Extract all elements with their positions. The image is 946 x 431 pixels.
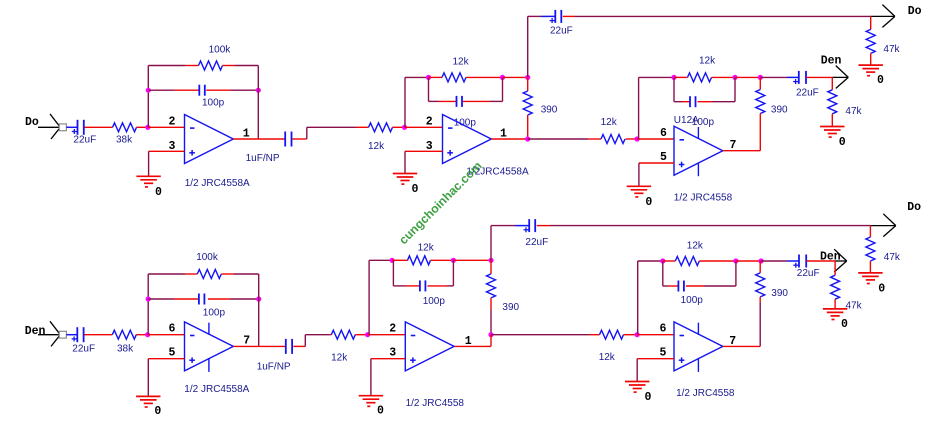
wire Do out black [871,15,895,17]
op-amp U4 1/2 JRC4558 (bottom stage2) [405,322,454,371]
wire 390 bottom lead (bot st3) [759,297,761,302]
wire 390 to node G (bot st2) [490,310,492,335]
wire C5 right lead [563,15,575,17]
wire 390 top lead (top st2) [527,77,529,91]
wire node B to U2 pin2 [405,126,443,128]
op-amp U2 1/2JRC4558A (top stage2) [443,115,492,164]
wire C8 left lead (blue) [66,334,77,336]
wire C10 right lead [293,345,305,347]
wire C6 left lead (dark) [674,101,682,103]
junction st3 row mid (bot) [733,258,738,263]
capacitor C10 1uF/NP (bottom coupling) [257,339,292,373]
wire st3 feedback left rail (top) [639,77,674,139]
wire node F to U4 pin2 [368,334,406,336]
wire 47k top lead (Do bot) [869,226,871,237]
wire U2 output [491,138,527,140]
wire pin3 down to ground (top st2) [404,151,406,173]
resistor R17 12k (bottom stage3 input) [599,330,624,363]
svg-text:0: 0 [877,74,884,87]
svg-text:390: 390 [502,302,519,313]
wire 47k bottom lead (Do bot) [869,261,871,273]
wire U4 output [454,335,491,347]
svg-text:22uF: 22uF [73,135,96,146]
ground (top Den load) [820,127,846,150]
op-amp U5 1/2 JRC4558 (bottom stage3) [674,322,723,372]
wire C11 right lead (dark) [447,285,453,287]
svg-text:1/2 JRC4558: 1/2 JRC4558 [674,193,733,204]
junction st2 row left (top) [426,75,431,80]
resistor R18 12k (bottom st3 feedback) [675,241,704,266]
wire 390 bottom lead (top st2) [527,115,529,139]
wire 100k left lead [185,65,199,67]
wire U12A pin5 (red) [639,162,674,164]
svg-text:100p: 100p [203,307,226,318]
wire R8 right lead [712,76,736,78]
svg-text:12k: 12k [453,57,470,68]
wire node E to U3 pin6 [148,334,185,336]
wire input Do (black) [38,126,59,128]
wire bus st2 to st3 (bot) [491,334,590,336]
wire 390 bottom lead (bot st2) [490,298,492,310]
wire 47k bottom lead (Do top) [870,53,872,65]
wire 100k row left (top) [148,65,185,67]
junction st3 row mid (top) [732,75,737,80]
svg-text:12k: 12k [331,353,348,364]
wire U5 output [723,345,760,347]
wire 100k left lead (bot) [185,273,197,275]
ground (bottom Do load) [858,273,885,295]
node D junction (top st3 pin6) [635,136,640,141]
wire R18 left lead [663,260,676,262]
ground (top Do load) [859,65,885,87]
wire R13 to node F [355,334,367,336]
svg-text:1/2 JRC4558: 1/2 JRC4558 [676,388,735,399]
op-amp U3 1/2 JRC4558A (bottom stage1) [185,322,234,372]
wire st2 feedback left rail (bot) [369,260,392,334]
wire 47k top lead (Den bot) [834,261,836,275]
wire 100p right lead [206,89,230,91]
wire R3 to node B [393,126,405,128]
resistor R20 47k (bottom Den load) [831,275,863,312]
junction right rail / cap row (top st1) [256,88,261,93]
svg-text:38k: 38k [116,135,133,146]
wire R17 left lead [590,334,600,336]
svg-text:1/2 JRC4558A: 1/2 JRC4558A [185,178,250,189]
wire 100p right lead (bot) [208,298,230,300]
svg-text:6: 6 [660,323,667,336]
wire U3 pin5 (red) [148,358,184,360]
svg-text:Do: Do [25,116,39,129]
capacitor C11 100p (bottom st2 feedback) [420,280,445,307]
wire 100p row right (bot) [230,298,259,300]
wire st2 cap loop (bot) [393,260,453,286]
wire Den out black (bot) [835,260,847,262]
svg-text:2: 2 [389,323,396,336]
resistor R9 390 (top st3) [756,90,788,116]
node C junction U2 out / 390 [525,136,530,141]
svg-text:2: 2 [169,115,176,128]
svg-text:22uF: 22uF [72,344,95,355]
svg-text:22uF: 22uF [525,237,548,248]
wire C13 right lead [686,285,704,287]
wire 100k row left (bot) [148,273,185,275]
wire U1 pin3 (red) [149,150,185,152]
resistor R8 12k (top st3 feedback) [688,55,717,82]
svg-text:0: 0 [155,186,162,199]
wire R7 left lead [588,138,601,140]
node H junction (bot st3 pin6) [635,332,640,337]
resistor R5 390 (top st2) [523,91,558,116]
junction st3 row right (bot) [758,258,763,263]
capacitor C3 1uF/NP (top coupling) [246,132,292,164]
wire bus st2 to st3 (top) [528,138,588,140]
wire R14 right lead [431,259,454,261]
svg-text:22uF: 22uF [550,26,573,37]
wire pin5 down to ground (bot st1) [147,359,149,397]
resistor R14 12k (bottom st2 feedback) [408,242,435,264]
wire C8 to R11 [84,334,112,336]
capacitor C7 22uF (top Den out) [793,71,819,99]
resistor R2 100k (top feedback) [199,44,232,70]
svg-text:5: 5 [660,347,667,360]
ground (top st2) [393,174,419,197]
wire R14 left lead [392,259,407,261]
wire 100p row left (top) [148,89,174,91]
wire top rail left segment [528,15,541,17]
svg-text:22uF: 22uF [797,268,820,279]
resistor R11 38k (bottom) [112,330,136,354]
wire coupling step up (top) [307,127,356,139]
wire C12 right lead [537,225,550,227]
resistor R1 38k (top) [113,123,137,146]
wire 100k right lead (bot) [221,273,234,275]
wire R4 right lead [466,76,503,78]
wire st3 feedback left rail (bot) [638,261,663,335]
svg-text:0: 0 [645,196,652,209]
wire 47k top lead (Do top) [870,16,872,29]
wire 390 bottom lead (top st3) [759,114,761,151]
svg-text:1/2 JRC4558A: 1/2 JRC4558A [184,384,249,395]
wire C6 left lead [682,101,690,103]
svg-text:390: 390 [541,105,558,116]
wire st3 row right (bot) [736,260,761,262]
svg-text:0: 0 [878,282,885,295]
capacitor C12 22uF (bottom rail) [524,219,549,248]
wire 100p left lead [175,89,200,91]
capacitor C9 100p (bottom feedback) [199,294,226,319]
junction st3 row left (bot) [660,258,665,263]
svg-text:0: 0 [841,318,848,331]
svg-text:100p: 100p [454,117,477,128]
svg-text:47k: 47k [884,252,901,263]
connector Do input port [50,114,66,139]
wire C4 left lead [439,100,457,102]
wire st2 cap loop (top) [429,77,503,101]
wire pin3 down to ground (bot st2) [370,359,372,396]
svg-text:47k: 47k [845,106,862,117]
junction st2 rail top (bot) [488,258,493,263]
svg-text:12k: 12k [601,117,618,128]
connector Do output port (bottom) [883,201,921,237]
wire to R13 12k [330,334,332,336]
wire C4 right lead (dark) [490,100,503,102]
wire 390 top lead (bot st2) [490,260,492,274]
svg-text:Den: Den [821,55,842,68]
connector Do output port (top) [882,5,921,28]
wire Do out black (bot) [870,225,895,227]
resistor R12 100k (bottom feedback) [196,252,221,278]
svg-text:0: 0 [839,136,846,149]
wire coupling step up (bot) [305,335,329,347]
ground (bot st2) [359,396,384,418]
wire R1 to node A [137,126,148,128]
svg-text:Den: Den [25,325,46,338]
wire input Den (black) [38,334,59,336]
svg-text:12k: 12k [599,352,616,363]
op-amp U1 1/2 JRC4558A (top stage1) [185,115,234,164]
wire feedback right rail (top st1) [257,66,259,140]
wire R18 right lead [699,260,736,262]
junction st2 row right (bot) [451,258,456,263]
svg-text:12k: 12k [687,241,704,252]
resistor R19 390 (bot st3) [756,273,789,299]
resistor R10 47k (top Den load) [828,90,863,117]
wire C1 left lead (blue) [66,126,77,128]
wire U3 output [233,345,285,347]
ground (bot st1) [136,396,161,418]
svg-text:Do: Do [907,201,921,214]
svg-text:100k: 100k [196,252,219,263]
wire bottom rail left segment [491,225,515,227]
wire C4 left lead (dark) [429,100,439,102]
wire C7 blue lead [787,76,799,78]
wire C5 blue lead [541,15,555,17]
junction st2 rail top (top) [525,75,530,80]
wire C12 blue lead [515,225,529,227]
svg-text:390: 390 [771,105,788,116]
wire node A to U1 pin2 [148,126,185,128]
connector Den output port (bottom) [820,249,847,272]
wire node H to U5 pin6 [637,334,674,336]
node A junction (top pin2 tap) [145,125,150,130]
wire U4 pin3 (red) [371,358,405,360]
wire bottom rail to Do out [550,225,870,227]
wire R17 to node H [624,334,638,336]
svg-text:47k: 47k [883,44,900,55]
resistor R4 12k (top st2 feedback) [442,57,470,82]
ground (top st3) [627,186,653,209]
wire feedback left rail (bot st1) [147,274,149,335]
wire C13 right lead (dark) [704,285,736,287]
wire 47k bottom lead (Den top) [831,114,833,127]
wire U2 pin3 (red) [405,150,443,152]
wire 390 top lead (bot st3) [759,261,761,273]
svg-text:12k: 12k [418,242,435,253]
resistor R16 47k (bottom Do load) [866,237,901,263]
svg-text:100p: 100p [681,295,704,306]
wire pin3 down to ground (top st1) [148,151,150,176]
wire feedback left rail (top st1) [147,66,149,128]
wire Den row (bot) [761,260,787,262]
svg-text:22uF: 22uF [796,87,819,98]
wire C14 right lead [807,260,836,262]
capacitor C4 100p (top st2 feedback) [454,96,477,128]
svg-text:100p: 100p [423,296,446,307]
wire C14 blue lead [787,260,799,262]
wire C6 right lead [698,101,713,103]
node E junction (bottom pin6 tap) [145,332,150,337]
wire feedback right rail (bot st1) [258,274,260,346]
wire C11 left lead [405,285,420,287]
wire 100k row right (bot) [234,273,259,275]
resistor R7 12k (top stage3 input) [601,117,625,143]
svg-text:100p: 100p [202,97,225,108]
svg-text:6: 6 [169,323,176,336]
node B junction (top st2 pin2) [402,125,407,130]
capacitor C2 100p (top feedback) [199,85,224,109]
resistor R13 12k (bottom stage2 input) [331,330,355,363]
junction left rail / cap row (bot st1) [146,296,151,301]
ground (bot st3) [625,382,652,405]
wire 100k row right (top) [235,65,258,67]
wire R7 to node D [626,138,638,140]
svg-text:5: 5 [169,347,176,360]
resistor R15 390 (bot st2) [487,274,520,313]
capacitor C14 22uF (bottom Den out) [793,255,819,280]
wire R8 left lead [674,76,688,78]
wire Den out black (top) [832,76,848,78]
junction left rail / cap row (top st1) [146,88,151,93]
svg-text:0: 0 [645,391,652,404]
junction st2 row left (bot) [390,258,395,263]
connector Den output port (top) [821,55,849,89]
wire st2 row to rail (top) [503,76,528,78]
wire st2 feedback left rail (top) [405,77,429,127]
wire R11 to node E [136,334,147,336]
svg-text:6: 6 [660,127,667,140]
wire st3 row right (top) [735,76,760,78]
svg-text:100k: 100k [209,44,232,55]
svg-text:0: 0 [154,405,161,418]
wire 47k top lead (Den top) [831,77,833,89]
svg-text:12k: 12k [699,55,716,66]
wire C7 right lead [806,76,832,78]
svg-text:3: 3 [389,347,396,360]
svg-text:U12A: U12A [674,115,699,126]
wire top rail to Do out [575,15,871,17]
junction right rail / cap row (bot st1) [256,296,261,301]
wire st3 cap loop (top) [674,77,735,101]
wire pin5 down to ground (top st3) [638,163,640,186]
svg-text:47k: 47k [846,301,863,312]
wire to R3 12k [356,126,369,128]
node G junction U4 out / 390 [488,332,493,337]
ground (top st1) [136,176,162,199]
node F junction (bot st2 pin2) [365,332,370,337]
capacitor C5 22uF (top rail) [550,10,573,37]
wire C11 right lead [427,285,447,287]
op-amp U12A 1/2 JRC4558 (top stage3) [674,126,723,176]
wire 390 to output (bot st3) [759,302,761,347]
svg-text:0: 0 [377,405,384,418]
wire R4 left lead [429,76,443,78]
svg-text:5: 5 [660,151,667,164]
junction st3 row right (top) [758,75,763,80]
capacitor C13 100p (bottom st3 feedback) [678,281,703,307]
svg-text:12k: 12k [368,141,385,152]
wire 100p row left (bot) [148,298,174,300]
wire st2 row to rail (bot) [453,259,491,261]
wire 100k right lead [223,65,236,67]
wire C1 to R1 [85,126,113,128]
resistor R3 12k (top stage2 input) [368,123,393,152]
wire st3 cap loop (bot) [663,261,736,286]
ground (bottom Den load) [823,309,848,331]
wire node D to U12A pin6 [637,138,674,140]
wire U5 pin5 (red) [637,358,674,360]
wire C3 right lead [292,138,307,140]
capacitor C1 22uF (top input) [72,120,96,146]
wire Den row (top) [760,76,787,78]
wire pin5 down to ground (bot st3) [636,359,638,382]
svg-text:Do: Do [908,5,922,18]
wire 47k bottom lead (Den bot) [834,299,836,309]
wire C4 right lead [463,100,490,102]
wire U12A output [723,150,761,152]
resistor R6 47k (top Do load) [866,29,900,55]
svg-text:390: 390 [771,288,788,299]
wire rail up (top st2) [527,16,529,77]
wire 100p left lead (bot) [174,298,199,300]
wire C13 left lead [668,285,678,287]
wire 390 top lead (top st3) [759,77,761,89]
junction st3 row left (top) [671,75,676,80]
svg-text:2: 2 [426,115,433,128]
connector Den input port [50,321,66,346]
svg-text:1uF/NP: 1uF/NP [257,361,291,372]
wire 100p row right (top) [231,89,259,91]
capacitor C6 100p (top st3 feedback) [690,96,714,128]
svg-text:1/2 JRC4558: 1/2 JRC4558 [406,398,465,409]
svg-text:0: 0 [412,183,419,196]
svg-text:7: 7 [243,334,250,347]
junction st2 row right (top) [500,75,505,80]
svg-text:38k: 38k [117,344,134,355]
wire C6 right lead (dark) [712,101,735,103]
capacitor C8 22uF (bottom input) [72,327,95,354]
svg-text:Den: Den [820,250,841,263]
svg-text:1uF/NP: 1uF/NP [246,153,280,164]
wire rail up (bot st2) [490,226,492,261]
wire U1 output [233,138,284,140]
